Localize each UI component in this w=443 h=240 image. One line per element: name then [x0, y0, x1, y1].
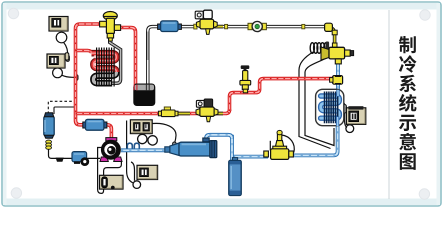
blue suction branch down to accumulator bottle [230, 135, 234, 161]
TXV power element coil [310, 43, 314, 54]
sensor capsule of switch 1 [66, 55, 69, 61]
starter wire circle [133, 181, 141, 189]
yellow brass pipe segments on liquid main [176, 112, 190, 116]
thermostat sensor capsule [343, 105, 347, 114]
terminal block [56, 158, 64, 162]
evaporator housing [316, 89, 344, 125]
condenser fins [97, 48, 115, 87]
red liquid main horizontal [76, 112, 162, 116]
start relay box (bottom) [100, 175, 124, 189]
solenoid valve V5 (top line) [195, 11, 203, 19]
evaporator coil [321, 96, 340, 118]
corner screw top-left [8, 8, 18, 18]
blue suction line to compressor [121, 148, 174, 152]
oil separator / receiver cylinder [134, 84, 155, 106]
thermostat box (right) [346, 108, 365, 125]
sensor capsule on red riser [75, 75, 78, 81]
wire loops under control box 7 [138, 134, 147, 143]
junction tee V6 (red/blue) [333, 76, 343, 85]
heat exchanger cylinder [170, 143, 179, 156]
yellow elbow to TXV stem [324, 27, 335, 47]
overload protector box [137, 165, 158, 179]
evaporator inlet/outlet stubs [336, 90, 339, 97]
valve V1 body [106, 18, 114, 33]
condenser serpentine black part [93, 72, 116, 83]
black liquid line top: separator to TXV [148, 27, 160, 88]
wire pressure switch 2 loop [53, 68, 63, 78]
wire pressure switch 1 loop [56, 32, 67, 43]
sight glass [248, 23, 252, 29]
EPR valve wire arc [282, 135, 295, 153]
valve V1 left port [100, 21, 107, 27]
wire loop under relay box [98, 158, 104, 193]
top shut-off valve V1 dome [103, 12, 117, 21]
solenoid valve V3 (on liquid main) [196, 100, 204, 107]
wire receiver top to red riser [54, 107, 75, 114]
gray pipe condenser outlet to valve [110, 39, 121, 84]
red riser to charging valve [230, 79, 334, 111]
wire relay box to compressor base [104, 161, 122, 176]
suction accumulator bottle [232, 158, 237, 161]
valve V1 right port [114, 25, 120, 31]
blue pipe TXV to evaporator inlet [336, 62, 340, 92]
TXV body [321, 47, 329, 60]
charging valve V4 [241, 65, 250, 69]
corner screw top-right [420, 10, 430, 20]
discharge muffler (blue horizontal) [83, 122, 86, 128]
dashed equalizer line to receiver [48, 101, 74, 114]
control box 7 (above compressor) [130, 120, 152, 134]
wire thermostat box loops (right) [346, 125, 354, 133]
corner screw bottom-left [11, 188, 21, 198]
blue pipe heat exchanger to branch tee [206, 135, 232, 142]
title divider line [388, 10, 390, 199]
condenser serpentine red part [92, 53, 117, 72]
small yellow fittings on top line [194, 24, 197, 29]
TXV capillary tube 2 [299, 52, 331, 149]
TXV capillary tube 1 [305, 57, 334, 146]
red discharge riser + top loop left [76, 24, 100, 125]
strainer sight glass (yellow beads) [46, 140, 52, 143]
compressor left lead wire [98, 148, 102, 159]
filter drier (blue, top line) [158, 24, 162, 29]
filter drier receiver (blue, left) [44, 117, 54, 136]
pressure switch box 2 [47, 54, 65, 68]
valve V1 bottom fitting [107, 33, 113, 38]
vertical title 制冷系统示意图 [399, 36, 416, 53]
wire control box to suction sensor [153, 123, 177, 143]
fan motor (small blue) [72, 152, 87, 162]
EPR valve on suction line [277, 134, 281, 141]
service tee valve V2 [164, 107, 170, 110]
vibration loops on suction line [127, 143, 139, 149]
red branch to condenser inlet [76, 51, 92, 54]
blue evaporator outlet down + suction run left [292, 123, 338, 155]
red pipe muffler to compressor [103, 125, 111, 140]
wire compressor to starter circle [127, 121, 134, 184]
suction line sensor capsule [173, 142, 177, 149]
wire from strainer to motor circuit [49, 149, 101, 158]
TXV stem fittings [332, 30, 337, 35]
corner screw bottom-right [419, 189, 429, 199]
pressure switch box 1 [49, 17, 68, 32]
compressor body [105, 156, 118, 159]
red pipe valve to separator drop [115, 28, 136, 90]
evaporator fins [325, 92, 338, 124]
